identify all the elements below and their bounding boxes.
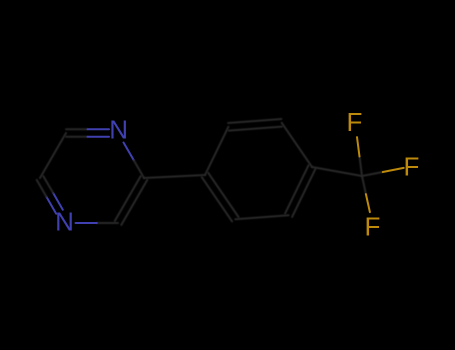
wire: bond C-F3 (bottom) [362,176,370,212]
wire: pyrazine bond C5-C6 [40,133,66,178]
wire: biaryl bond C2-C1' [144,175,205,178]
wire: phenyl bond C3'-C4' [282,123,312,167]
svg-text:N: N [109,114,128,144]
wire: bond C-F1 (top) [357,137,362,176]
wire: pyrazine bond C3-N4 [76,222,119,224]
wire: bond C4'-C(CF3) [312,167,362,176]
wire: phenyl bond C6'=C1' (double) [202,173,239,222]
wire: phenyl bond C2'=C3' (double) [228,119,282,131]
svg-text:N: N [55,207,74,237]
wire: phenyl bond C1'-C2' [205,127,228,175]
wire: phenyl bond C4'=C5' (double) [285,165,315,217]
svg-text:F: F [404,152,420,182]
svg-text:F: F [347,107,363,137]
wire: phenyl bond C5'-C6' [235,215,288,219]
wire: bond C-F2 (right) [362,168,404,176]
wire: pyrazine bond N4=C5 (double) [37,176,63,214]
wire: pyrazine bond C2=C3 (double) [115,176,148,225]
wire: pyrazine bond N1-C2 [124,143,145,179]
svg-text:F: F [365,212,381,242]
wire: pyrazine bond C6=N1 (double) [66,129,109,137]
